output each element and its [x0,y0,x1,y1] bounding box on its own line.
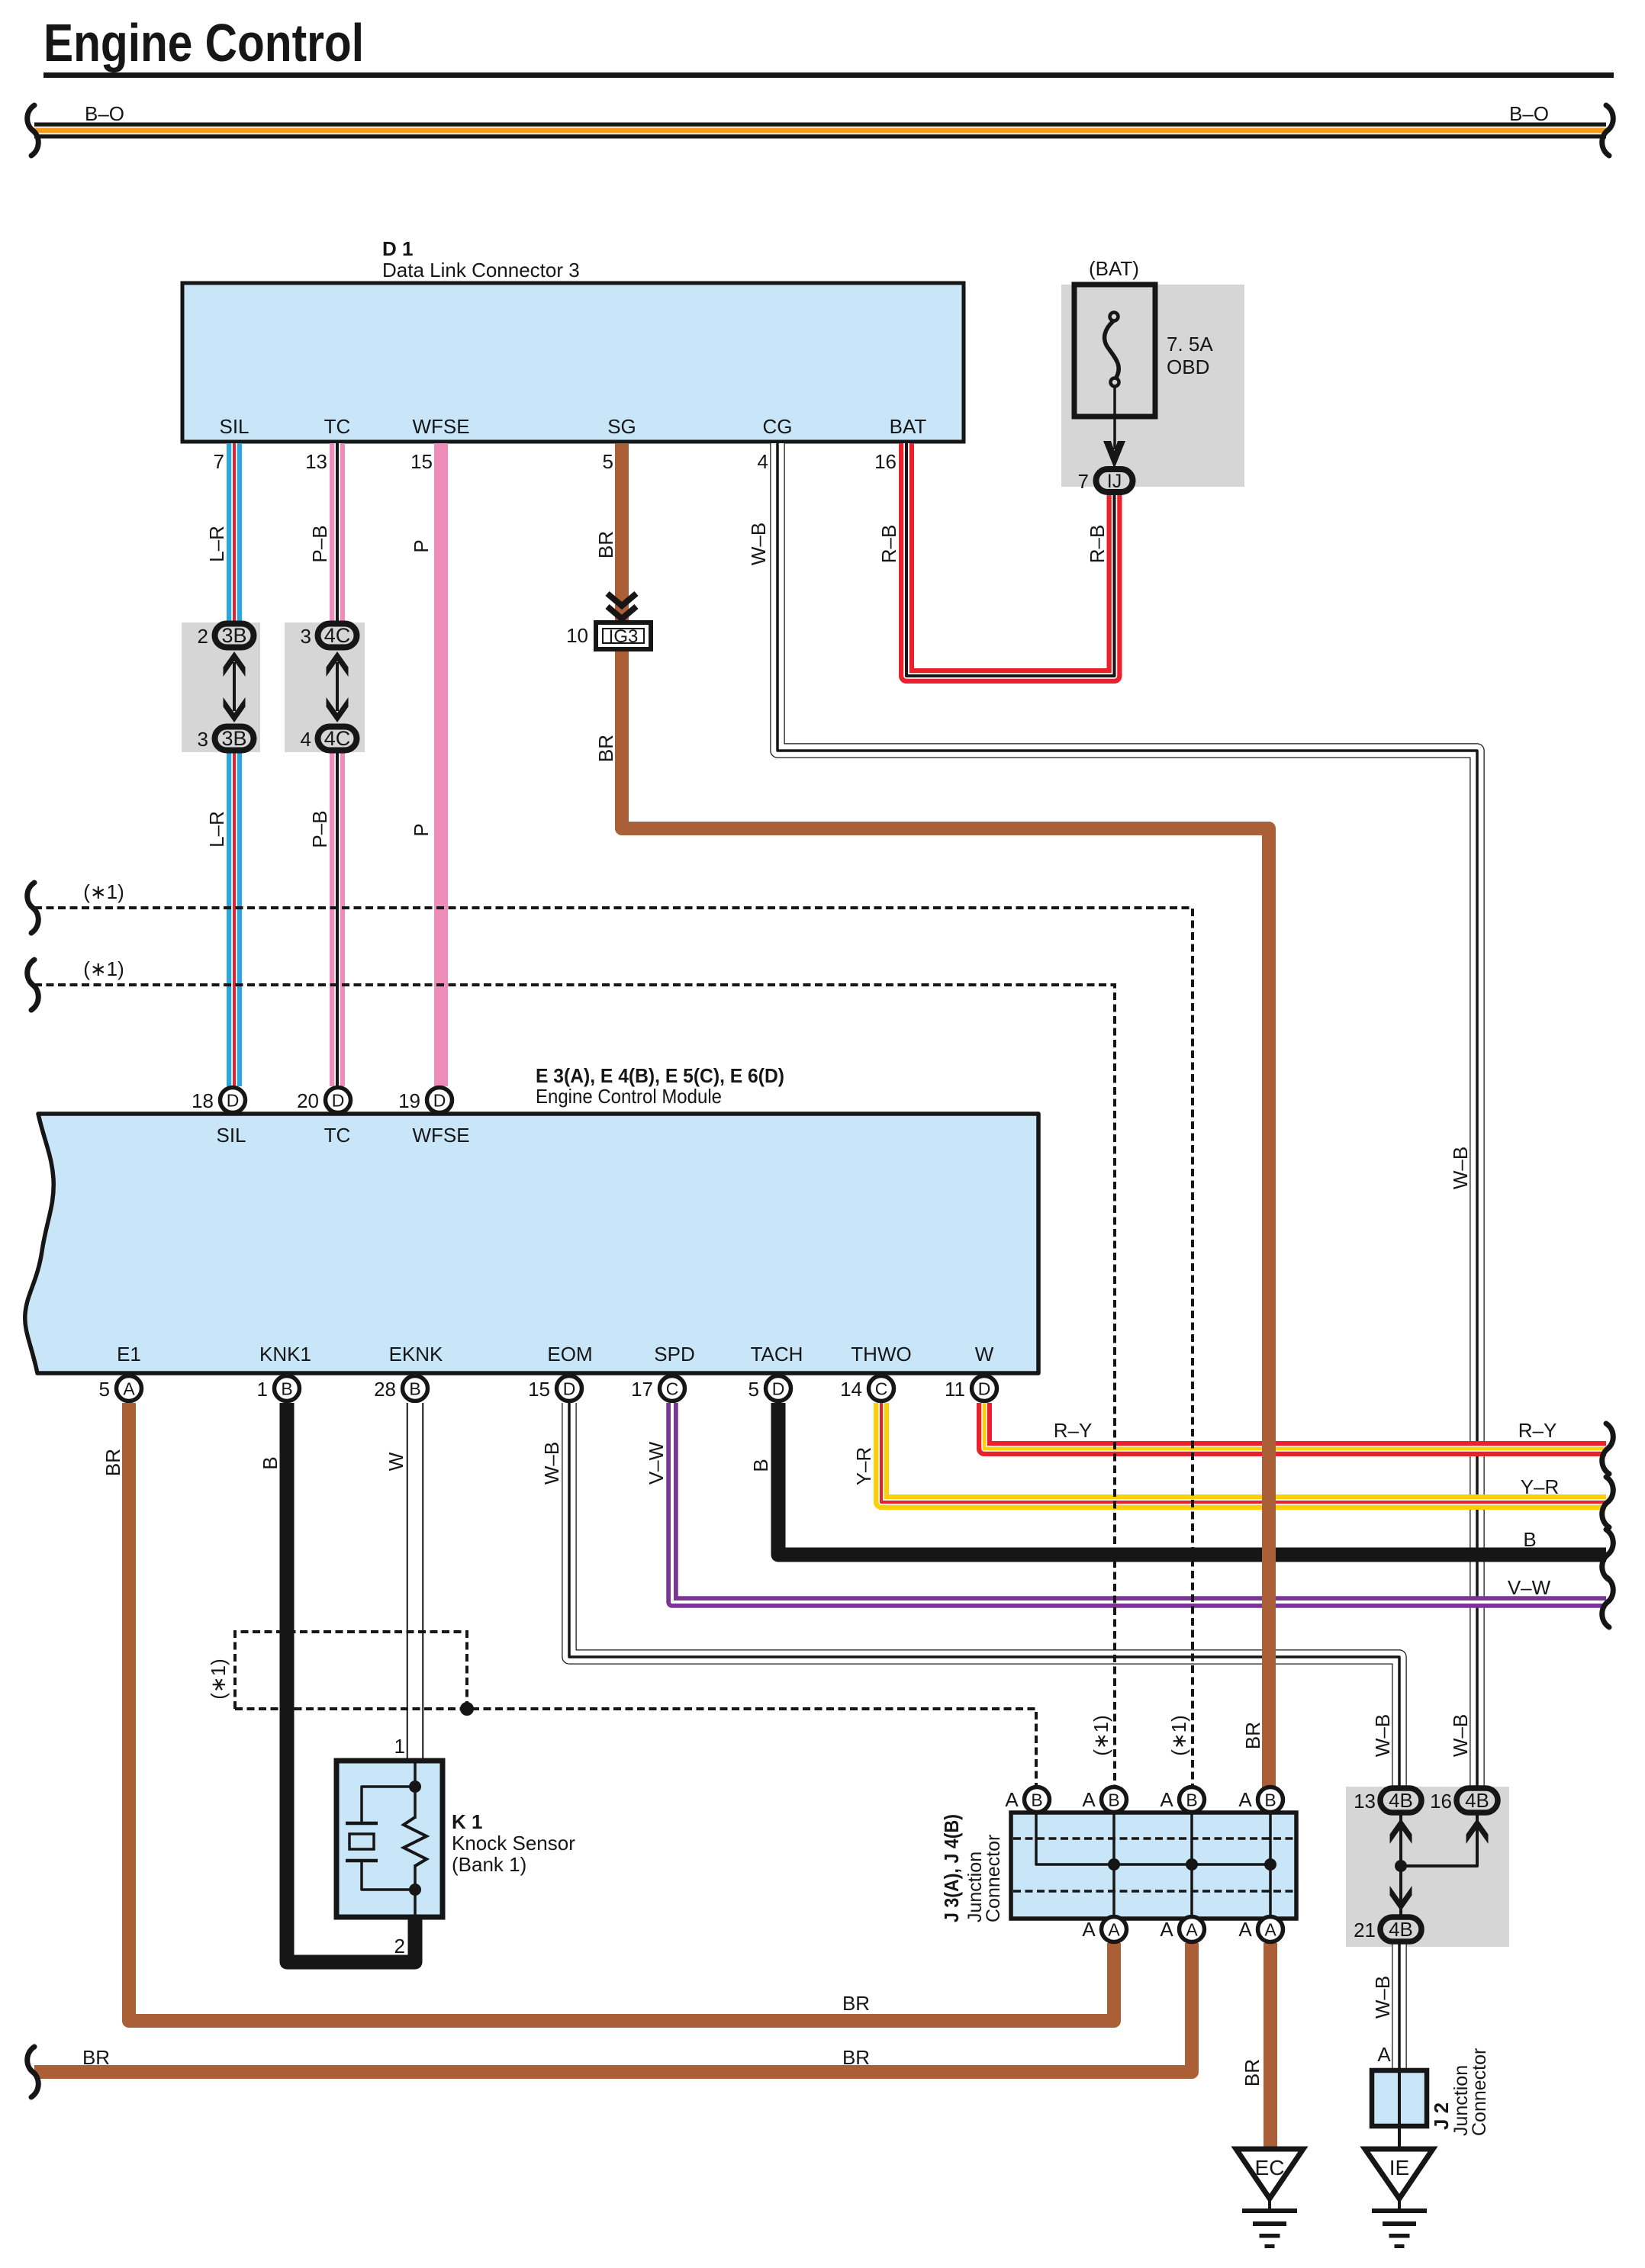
squiggle left lower BR [27,2047,39,2097]
link line 13 4B to node [1399,1814,1402,1866]
junction dot on dashed shield line [460,1702,474,1716]
wire W-B from ECM EOM 15(D) to connector 13 4B [569,1403,1399,1787]
svg-text:18: 18 [192,1089,214,1112]
svg-text:10: 10 [566,624,588,647]
wire P-B lower segment to ECM TC [330,751,345,1086]
resistor R inside K1 [404,1817,427,1866]
wire Y-R from ECM THWO 14(C) to right edge [881,1403,1606,1502]
svg-text:E1: E1 [117,1343,141,1366]
ECM bottom pin circle 5 D [766,1376,791,1401]
svg-text:CG: CG [763,415,793,438]
svg-text:Engine Control: Engine Control [43,13,364,72]
ECM bottom pin circle 15 D [557,1376,582,1401]
svg-text:5: 5 [603,450,613,473]
svg-text:L–R: L–R [205,526,228,562]
wire L-R lower segment to ECM SIL [227,751,242,1086]
svg-text:SIL: SIL [219,415,249,438]
wire BR from junction A pin 3 to ground EC [1264,1943,1277,2147]
fuse F OBD 7.5A body [1074,285,1155,417]
svg-text:BR: BR [842,1992,870,2015]
svg-text:15: 15 [528,1378,550,1401]
dashed shield box at knock sensor [235,1632,467,1709]
svg-text:7: 7 [1078,470,1089,493]
svg-text:B: B [1108,1790,1119,1810]
svg-text:W–B: W–B [747,523,770,565]
svg-text:BR: BR [1241,1722,1264,1749]
svg-text:KNK1: KNK1 [259,1343,311,1366]
wire W from ECM EKNK 28(B) to knock sensor pin 1 [407,1403,424,1762]
svg-text:P: P [410,823,433,836]
svg-text:WFSE: WFSE [412,415,469,438]
svg-text:13: 13 [305,450,327,473]
svg-text:4B: 4B [1389,1918,1413,1941]
node dot 4B [1395,1860,1407,1872]
wire V-W from ECM SPD 17(C) to right edge [672,1403,1606,1602]
svg-text:2: 2 [394,1935,405,1958]
connector oval IJ [1096,469,1133,492]
wire R-B from D1 BAT pin 16 down, right and up to IJ [906,443,1115,676]
svg-text:C: C [666,1379,679,1399]
J3/J4 top pin circle B2 [1102,1787,1127,1813]
ground symbol IE [1398,2199,1401,2211]
svg-text:D: D [978,1379,991,1399]
svg-text:Connector: Connector [983,1835,1004,1922]
svg-text:B–O: B–O [1509,102,1549,125]
wire B from ECM TACH 5(D) to right edge [778,1403,1606,1555]
svg-text:B: B [1523,1528,1536,1551]
svg-text:(BAT): (BAT) [1089,257,1139,280]
ECM bottom pin circle 14 C [869,1376,894,1401]
svg-text:TACH: TACH [751,1343,803,1366]
svg-text:R–B: R–B [1086,525,1109,564]
J3/J4 internal pin link B3-A2 [1190,1813,1193,1919]
svg-text:3: 3 [301,625,311,648]
link line node to 16 4B [1401,1814,1477,1866]
svg-text:4B: 4B [1465,1789,1489,1812]
squiggle right V-W [1602,1577,1614,1627]
svg-text:14: 14 [840,1378,862,1401]
svg-text:(∗1): (∗1) [1090,1715,1112,1756]
svg-text:16: 16 [1430,1790,1452,1813]
arrow into 16 4B [1466,1819,1489,1844]
svg-text:D: D [227,1091,240,1111]
svg-text:BR: BR [82,2046,110,2069]
svg-text:13: 13 [1354,1790,1376,1813]
ECM bottom pin circle 17 C [660,1376,685,1401]
svg-text:D: D [433,1091,446,1111]
junction dot bus x1665 [1264,1858,1276,1871]
svg-text:Connector: Connector [1469,2048,1490,2136]
connector 3B pin 2 oval [215,624,254,648]
K1 internal lead pin1 to resistor [414,1763,417,1819]
ECM top pin circle 20 D [326,1088,351,1113]
svg-text:5: 5 [748,1378,759,1401]
wire-break squiggle right of B-O [1602,105,1614,156]
wire BR from left edge to junction A pin 2 [34,1943,1192,2072]
svg-text:4: 4 [301,728,311,751]
svg-text:IJ: IJ [1107,471,1122,492]
svg-text:W: W [385,1452,407,1471]
arrowhead into IJ [1103,441,1125,468]
svg-text:4: 4 [758,450,768,473]
connector 4C pin 4 oval [318,727,357,751]
squiggle left dashed 2 [27,960,39,1010]
J3/J4 bottom pin circle A3 [1258,1917,1283,1942]
svg-text:R–Y: R–Y [1518,1419,1557,1442]
svg-text:C: C [875,1379,888,1399]
svg-text:SG: SG [607,415,636,438]
svg-text:B–O: B–O [85,102,124,125]
link line node to 21 4B [1399,1866,1402,1916]
svg-text:IG3: IG3 [609,626,639,647]
connector D1 Data Link Connector 3 box [182,283,964,442]
J3/J4 top pin circle B4 [1258,1787,1283,1813]
svg-text:15: 15 [410,450,433,473]
svg-text:J 3(A), J 4(B): J 3(A), J 4(B) [940,1814,963,1922]
squiggle left dashed 1 [27,883,39,933]
svg-text:P: P [410,539,433,552]
IG3 double chevron [607,594,636,606]
svg-text:BR: BR [1241,2059,1264,2086]
ECM bottom pin circle 28 B [403,1376,428,1401]
svg-text:EKNK: EKNK [389,1343,443,1366]
svg-text:B: B [1031,1790,1042,1810]
svg-text:TC: TC [324,415,351,438]
svg-text:3B: 3B [221,624,246,647]
svg-text:BAT: BAT [890,415,927,438]
svg-text:D 1: D 1 [382,237,413,260]
piezo element branch bottom [362,1862,415,1890]
svg-text:7. 5A: 7. 5A [1167,333,1213,355]
wire W-B from D1 CG pin 4 down, right and down to connector 16 4B [777,443,1477,1787]
svg-text:W–B: W–B [1449,1147,1472,1189]
junction connector J2 box [1372,2070,1427,2126]
svg-text:3B: 3B [221,727,246,750]
junction dot bus x1460 [1108,1858,1120,1871]
sensor K1 Knock Sensor (Bank 1) box [336,1761,443,1917]
arrow into 13 4B [1390,1819,1412,1844]
svg-text:D: D [772,1379,785,1399]
J3/J4 internal pin link B2-A1 [1112,1813,1115,1919]
J3/J4 internal pin link B4-A3 [1269,1813,1272,1919]
svg-text:7: 7 [214,450,224,473]
piezo plate top [346,1822,378,1826]
svg-text:BR: BR [101,1449,124,1476]
svg-text:A: A [1186,1920,1198,1940]
svg-text:5: 5 [99,1378,110,1401]
node dot K1 pin1 side [409,1781,421,1793]
svg-text:(∗1): (∗1) [207,1658,230,1700]
svg-text:K 1: K 1 [452,1810,482,1833]
svg-text:A: A [1108,1920,1120,1940]
connector oval 16 4B [1457,1788,1498,1813]
svg-text:A: A [1238,1918,1252,1941]
connector oval 13 4B [1380,1788,1421,1813]
svg-text:P–B: P–B [308,525,331,562]
squiggle right B [1602,1530,1614,1580]
ECM bottom pin circle 11 D [972,1376,997,1401]
svg-text:A: A [123,1379,135,1399]
dashed (*1) line 1 from left edge to junction B pin 3 [34,908,1193,1787]
svg-text:Data Link Connector 3: Data Link Connector 3 [382,259,580,281]
svg-text:21: 21 [1354,1919,1376,1941]
connector oval 21 4B [1380,1917,1421,1941]
J3/J4 bottom pin circle A1 [1102,1917,1127,1942]
svg-text:B: B [749,1459,772,1472]
svg-text:Engine Control Module: Engine Control Module [536,1085,722,1108]
node dot K1 pin2 side [409,1884,421,1896]
connector gray panel 4B [1346,1787,1509,1947]
ground EC triangle [1236,2149,1303,2199]
piezo element branch top [362,1787,415,1822]
piezo crystal rectangle [349,1834,374,1849]
J2 internal through line [1398,2070,1401,2147]
connector 4C pin 3 oval [318,624,357,648]
arrow into 21 4B [1390,1886,1412,1911]
svg-text:A: A [1160,1918,1173,1941]
svg-text:SIL: SIL [216,1124,246,1147]
connector gray panel 4C [285,622,365,752]
wire BR vertical overlay (SG wire over crossing wires) [1262,828,1276,1787]
svg-text:A: A [1264,1920,1276,1940]
wire BR from D1 SG pin 5 down, right and down to junction connector [622,443,1269,1787]
ECM top pin circle 19 D [427,1088,452,1113]
svg-text:BR: BR [594,531,617,558]
svg-text:IE: IE [1389,2156,1409,2180]
wire R-Y from ECM W 11(D) to right edge [984,1403,1606,1449]
svg-text:TC: TC [324,1124,351,1147]
svg-text:WFSE: WFSE [412,1124,469,1147]
ground symbol EC [1268,2199,1271,2211]
svg-text:1: 1 [257,1378,268,1401]
svg-text:B: B [1264,1790,1276,1810]
connector gray panel 3B [182,622,260,752]
svg-text:(∗1): (∗1) [1167,1715,1190,1756]
svg-text:D: D [332,1091,345,1111]
svg-text:4B: 4B [1389,1789,1413,1812]
svg-text:Y–R: Y–R [852,1447,875,1486]
svg-text:W–B: W–B [540,1442,563,1485]
svg-text:W–B: W–B [1371,1976,1394,2019]
svg-text:20: 20 [297,1089,319,1112]
svg-text:Knock Sensor: Knock Sensor [452,1832,575,1855]
svg-text:SPD: SPD [654,1343,694,1366]
wire B from ECM KNK1 1(B) to knock sensor pin 2 [287,1403,415,1962]
svg-text:A: A [1238,1788,1252,1811]
fuse holder gray panel (BAT) [1061,285,1244,487]
svg-text:B: B [281,1379,292,1399]
junction connector J3(A) J4(B) box [1011,1813,1296,1919]
svg-text:BR: BR [842,2046,870,2069]
svg-text:W–B: W–B [1371,1714,1394,1757]
J3/J4 top pin circle B1 [1025,1787,1050,1813]
svg-text:V–W: V–W [645,1441,668,1485]
wire P-B from D1 TC pin 13 (upper segment) [330,443,345,622]
svg-text:THWO: THWO [851,1343,911,1366]
svg-text:(∗1): (∗1) [83,880,124,903]
ECM bottom pin circle 5 A [117,1376,142,1401]
dashed (*1) line 2 from left edge to junction B pin 2 [34,985,1115,1787]
svg-text:A: A [1082,1788,1096,1811]
wire fuse to IJ [1113,387,1116,449]
connector 3B pin 3 oval [215,727,254,751]
svg-text:V–W: V–W [1508,1576,1551,1599]
svg-text:A: A [1005,1788,1019,1811]
svg-text:W: W [975,1343,994,1366]
svg-text:28: 28 [374,1378,396,1401]
ground IE triangle [1365,2149,1433,2199]
wire P from D1 WFSE pin 15 to ECM WFSE [434,443,448,1086]
wire BR from ECM E1 5(A) right to junction A pin [129,1403,1114,2021]
svg-text:B: B [409,1379,420,1399]
svg-text:L–R: L–R [205,811,228,848]
svg-text:D: D [563,1379,576,1399]
svg-text:A: A [1160,1788,1173,1811]
svg-text:1: 1 [394,1735,405,1758]
wire B-O (top bus) [34,123,1606,139]
svg-text:17: 17 [631,1378,653,1401]
svg-text:19: 19 [398,1089,420,1112]
svg-text:11: 11 [945,1378,965,1401]
wire L-R from D1 SIL pin 7 (upper segment) [227,443,242,622]
svg-text:R–B: R–B [877,525,900,564]
svg-text:R–Y: R–Y [1054,1419,1093,1442]
4C mating arrows [336,662,339,711]
svg-text:3: 3 [198,728,208,751]
J3/J4 internal dashed bus 2 [1013,1890,1294,1893]
svg-text:W–B: W–B [1449,1714,1472,1757]
svg-text:BR: BR [594,735,617,762]
svg-text:A: A [1377,2043,1391,2066]
svg-text:Y–R: Y–R [1521,1475,1560,1498]
svg-text:OBD: OBD [1167,355,1209,378]
svg-text:16: 16 [874,450,897,473]
svg-text:EOM: EOM [547,1343,592,1366]
ECM bottom pin circle 1 B [275,1376,300,1401]
squiggle right Y-R [1602,1477,1614,1527]
svg-text:B: B [1186,1790,1197,1810]
svg-text:B: B [259,1456,282,1469]
connector IG3 box [596,622,651,649]
svg-text:4C: 4C [324,624,351,647]
K1 internal lead resistor to pin2 [414,1864,417,1916]
svg-text:J 2: J 2 [1430,2102,1453,2130]
J3/J4 internal dashed bus 1 [1013,1837,1294,1840]
fuse element symbol [1105,321,1119,378]
piezo plate bottom [346,1859,378,1863]
svg-text:EC: EC [1255,2156,1285,2180]
wire-break squiggle left of B-O [27,105,39,156]
svg-text:A: A [1082,1918,1096,1941]
J3/J4 bottom pin circle A2 [1180,1917,1205,1942]
squiggle right R-Y [1602,1424,1614,1474]
svg-text:(∗1): (∗1) [83,957,124,980]
junction dot bus x1562 [1186,1858,1198,1871]
3B mating arrows [233,662,236,711]
dashed (*1) line from shield box to junction B pin 1 [235,1709,1036,1787]
svg-text:E 3(A), E 4(B), E 5(C), E 6(D): E 3(A), E 4(B), E 5(C), E 6(D) [536,1064,784,1087]
wire W-B from connector 21 4B to J2 [1392,1944,1407,2071]
J3/J4 internal solid bus [1036,1813,1270,1864]
svg-text:2: 2 [198,625,208,648]
svg-text:(Bank 1): (Bank 1) [452,1853,526,1876]
J3/J4 top pin circle B3 [1180,1787,1205,1813]
svg-text:P–B: P–B [308,810,331,848]
ECM top pin circle 18 D [221,1088,246,1113]
svg-text:4C: 4C [324,727,351,750]
ECM E3(A) E4(B) E5(C) E6(D) Engine Control Module box (torn left edge) [25,1114,1038,1373]
